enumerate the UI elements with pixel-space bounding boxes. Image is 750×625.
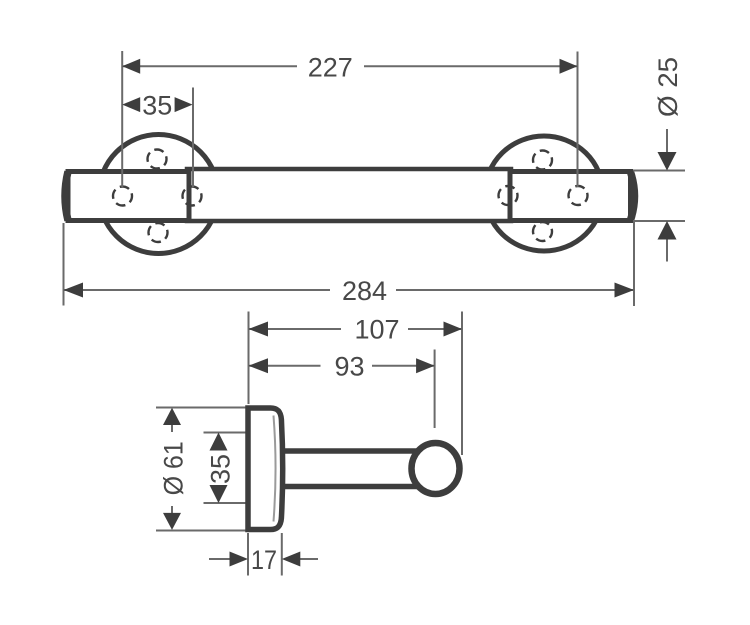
ext line 93 right (x=435.5)	[434, 350, 436, 429]
svg-text:35: 35	[206, 454, 236, 484]
dia61 ext bottom	[156, 530, 246, 532]
right mounting plate	[510, 172, 631, 221]
svg-text:107: 107	[354, 315, 399, 345]
ext line 284 left (x=63.5)	[63, 223, 65, 306]
svg-text:35: 35	[142, 91, 172, 121]
arrow 17 left-pointing	[282, 552, 301, 567]
arrow dia25 up	[658, 221, 677, 240]
svg-text:227: 227	[308, 53, 353, 83]
bolt hole right flange north	[533, 151, 552, 170]
dia25 ext bottom	[633, 220, 685, 222]
ext line 284 right (x=637)	[633, 221, 635, 306]
bolt hole left flange east	[183, 187, 202, 206]
left mounting plate	[68, 172, 189, 221]
left bar end cap	[65, 172, 68, 221]
arrowheads	[64, 59, 677, 567]
ext line 107 right (x=460.5)	[461, 312, 463, 456]
arrow 107 right	[444, 322, 463, 337]
dia61 ext top	[156, 407, 246, 409]
left flange circle	[99, 135, 218, 254]
svg-text:93: 93	[334, 352, 364, 382]
dim line 17 left tail	[209, 558, 230, 560]
side view: bar cross-section circle	[412, 443, 460, 494]
bolt hole right flange west	[499, 186, 518, 205]
ext line 35 right (x=193)	[192, 88, 194, 188]
dim line 93	[249, 365, 321, 367]
svg-text:17: 17	[251, 545, 277, 575]
arrow 227 right	[560, 59, 578, 74]
ext line 227 left (x=123.5)	[121, 51, 123, 187]
dim line 17 right tail	[300, 558, 318, 560]
thin dimension / extension lines	[64, 51, 686, 576]
arrow 284 left	[64, 283, 84, 298]
bolt hole right flange east	[569, 186, 588, 205]
svg-text:Ø 25: Ø 25	[653, 57, 683, 117]
arrow dia61 down	[163, 513, 181, 530]
right flange circle	[485, 136, 603, 251]
arrow 93 right	[416, 358, 435, 373]
bolt hole left flange west	[113, 187, 132, 206]
arrow 35 right	[175, 97, 193, 112]
arrow 93 left	[249, 358, 269, 373]
arrow dia61 up	[163, 408, 181, 425]
arrow 17 right-pointing	[230, 552, 249, 567]
arrow 107 left	[249, 322, 269, 337]
arrow 35side down	[210, 485, 228, 503]
ext line 107/93 left (x=248.5)	[248, 312, 250, 405]
bolt hole left flange south	[149, 223, 168, 242]
ext line 17 right (x=281)	[281, 533, 283, 576]
side view: bar arm bottom line	[282, 484, 420, 490]
ext line 227 right (x=577.5)	[577, 52, 579, 188]
svg-text:284: 284	[342, 276, 387, 306]
arrow 35 left	[122, 97, 140, 112]
svg-text:Ø 61: Ø 61	[159, 441, 189, 495]
bolt hole left flange north	[148, 150, 167, 169]
dia25 leader bottom	[666, 239, 668, 262]
side view: wall plate	[248, 408, 283, 530]
arrow dia25 down	[658, 152, 677, 171]
bar tube (middle section)	[187, 169, 511, 221]
35 side ext top	[204, 432, 247, 434]
dia25 ext top	[633, 170, 685, 172]
dia61 dim line	[171, 425, 173, 433]
bolt hole right flange south	[533, 222, 552, 241]
side view: bar arm top line	[282, 448, 420, 454]
ext line 17 left (x=246.5)	[247, 533, 249, 576]
arrow 284 right	[615, 283, 635, 298]
35 side ext bottom	[204, 502, 247, 504]
dim line 227	[122, 65, 297, 67]
wall plate inner seam line	[274, 416, 276, 522]
arrow 227 left	[122, 59, 140, 74]
right bar end cap	[631, 172, 635, 220]
dia25 leader top	[666, 129, 668, 153]
dim line 107	[249, 328, 342, 330]
arrow 35side up	[210, 433, 228, 451]
dim line 284	[64, 289, 331, 291]
